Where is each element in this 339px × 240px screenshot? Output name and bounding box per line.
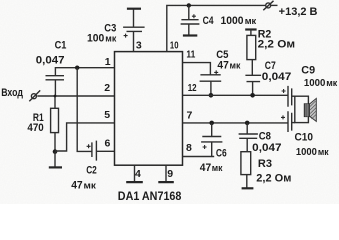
svg-text:DA1 AN7168: DA1 AN7168 <box>118 189 182 203</box>
svg-text:+13,2 В: +13,2 В <box>279 6 318 18</box>
svg-text:C1: C1 <box>55 40 67 52</box>
svg-text:100: 100 <box>87 32 104 44</box>
svg-text:0,047: 0,047 <box>252 142 281 154</box>
svg-text:C2: C2 <box>86 164 97 176</box>
svg-text:0,047: 0,047 <box>262 71 292 83</box>
svg-text:5: 5 <box>104 109 110 121</box>
svg-text:C10: C10 <box>295 132 314 144</box>
svg-text:10: 10 <box>170 39 179 51</box>
svg-text:47: 47 <box>200 162 211 174</box>
svg-text:мк: мк <box>212 163 223 173</box>
svg-text:мк: мк <box>230 60 241 70</box>
svg-text:47: 47 <box>217 59 228 71</box>
svg-text:11: 11 <box>186 48 195 60</box>
svg-text:мк: мк <box>84 180 97 190</box>
svg-text:мк: мк <box>326 78 337 88</box>
svg-text:1000: 1000 <box>296 147 317 158</box>
svg-text:C4: C4 <box>203 15 215 27</box>
svg-text:9: 9 <box>167 168 173 180</box>
svg-text:7: 7 <box>187 110 193 122</box>
svg-text:2: 2 <box>104 82 110 94</box>
svg-text:8: 8 <box>186 142 192 154</box>
svg-text:47: 47 <box>71 179 83 191</box>
svg-text:3: 3 <box>136 39 142 51</box>
svg-text:C6: C6 <box>216 148 227 160</box>
svg-text:12: 12 <box>188 82 197 94</box>
svg-text:мк: мк <box>318 147 329 157</box>
svg-text:1000: 1000 <box>221 15 244 27</box>
svg-text:мк: мк <box>245 16 257 26</box>
svg-text:470: 470 <box>27 122 43 134</box>
svg-text:мк: мк <box>105 33 116 43</box>
svg-text:R3: R3 <box>258 158 272 170</box>
svg-text:C9: C9 <box>301 64 315 76</box>
svg-text:1: 1 <box>105 56 111 68</box>
svg-text:1000: 1000 <box>304 78 326 89</box>
svg-text:Вход: Вход <box>1 87 23 99</box>
svg-text:6: 6 <box>105 138 111 150</box>
svg-text:2,2 Ом: 2,2 Ом <box>258 38 296 50</box>
svg-text:0,047: 0,047 <box>36 55 65 67</box>
svg-text:2,2 Ом: 2,2 Ом <box>256 172 291 184</box>
svg-text:C8: C8 <box>259 130 271 142</box>
svg-text:4: 4 <box>135 168 141 180</box>
